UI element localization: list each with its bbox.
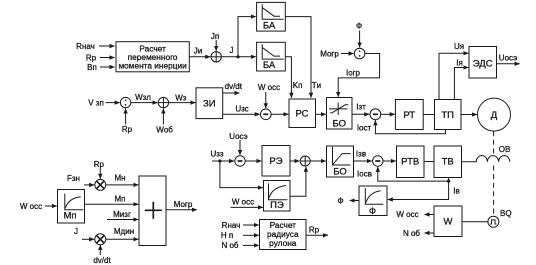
svg-text:Rнач: Rнач [222,221,241,230]
svg-text:BQ: BQ [500,209,512,218]
svg-text:Iв: Iв [453,187,459,196]
svg-text:Rp: Rp [94,160,105,169]
svg-text:БО: БО [333,166,347,177]
svg-text:Iзт: Iзт [356,103,366,112]
svg-text:ТП: ТП [441,110,454,121]
svg-text:dv/dt: dv/dt [225,82,243,91]
svg-text:Rнач: Rнач [76,42,95,51]
svg-text:Н п: Н п [221,231,233,240]
svg-text:Tи: Tи [312,81,321,90]
svg-text:ЗИ: ЗИ [203,98,216,109]
svg-text:рулона: рулона [269,238,297,248]
svg-text:Uосэ: Uосэ [229,132,247,141]
svg-text:Fзн: Fзн [67,174,80,183]
svg-text:Могр: Могр [174,200,193,209]
svg-text:Мизг: Мизг [113,210,131,219]
svg-text:Wоб: Wоб [156,125,173,134]
svg-text:Wз: Wз [175,93,187,102]
svg-text:Uзз: Uзз [210,149,223,158]
svg-text:Могр: Могр [320,49,339,58]
svg-text:ПЭ: ПЭ [270,200,284,211]
svg-text:V зп: V зп [88,98,104,107]
svg-text:Jп: Jп [211,32,219,41]
svg-text:dv/dt: dv/dt [93,256,111,265]
svg-text:БО: БО [333,118,347,129]
svg-text:Jи: Jи [194,46,202,55]
svg-text:Д: Д [491,110,498,121]
svg-text:момента инерции: момента инерции [118,60,187,70]
svg-text:РТВ: РТВ [401,157,419,168]
svg-text:РЭ: РЭ [269,156,282,167]
svg-text:ЭДС: ЭДС [473,58,493,69]
svg-text:Ф: Ф [356,22,362,31]
svg-text:Iя: Iя [456,58,463,67]
svg-text:РТ: РТ [403,110,415,121]
svg-text:Rp: Rp [122,125,133,134]
svg-text:N об: N об [403,229,420,238]
svg-text:Uя: Uя [454,42,464,51]
svg-text:Мп: Мп [63,210,76,221]
svg-text:Мдин: Мдин [114,227,134,236]
svg-text:БА: БА [263,20,276,31]
svg-text:Iзв: Iзв [356,149,366,158]
svg-text:Iосв: Iосв [357,169,372,178]
svg-text:Мп: Мп [115,195,126,204]
svg-text:ТВ: ТВ [442,157,454,168]
svg-text:W осс: W осс [396,210,418,219]
svg-text:W: W [444,216,453,227]
svg-text:J: J [230,46,234,55]
svg-text:Вп: Вп [87,63,97,72]
svg-text:ОВ: ОВ [499,145,511,154]
svg-text:Wзл: Wзл [135,93,151,102]
svg-text:W осс: W осс [232,197,254,206]
svg-text:РС: РС [295,109,308,120]
svg-text:W осс: W осс [258,83,280,92]
svg-text:Kп: Kп [293,81,303,90]
svg-text:N об: N об [221,241,238,250]
svg-text:Ф: Ф [369,206,376,217]
svg-text:БА: БА [263,60,276,71]
svg-text:Ф: Ф [337,196,343,205]
svg-text:Мн: Мн [114,174,125,183]
svg-text:J: J [74,227,78,236]
svg-text:Iогр: Iогр [346,69,361,78]
svg-text:Uзс: Uзс [235,104,248,113]
svg-text:Iост: Iост [357,123,372,132]
svg-text:Rp: Rp [86,53,97,62]
svg-text:Uосэ: Uосэ [499,53,517,62]
svg-text:W осс: W осс [20,202,42,211]
svg-text:Rp: Rp [309,225,320,234]
